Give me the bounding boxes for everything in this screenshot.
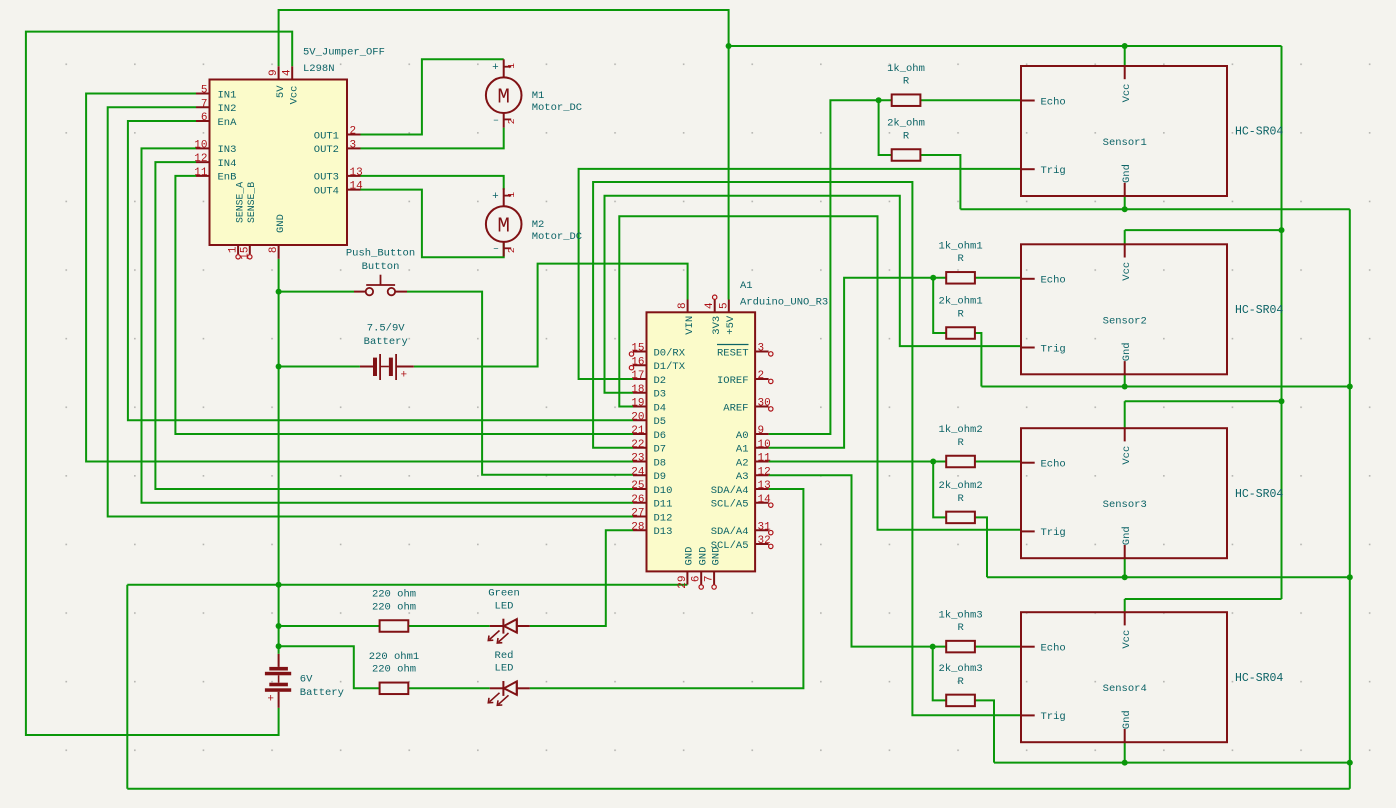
svg-text:6: 6 [691,576,703,583]
wire A0 to Sensor1 echo divider [769,100,892,434]
wire Sensor2 Vcc wire [1125,229,1282,231]
resistor R 1k_ohm3 (Sensor4) [939,609,983,652]
svg-text:5V_Jumper_OFF: 5V_Jumper_OFF [303,47,385,59]
svg-text:Red: Red [495,650,514,662]
svg-text:GND: GND [684,547,696,566]
svg-text:IN3: IN3 [218,144,237,156]
no-connect marker Arduino GND6 [699,585,703,589]
wire Sensor1 2k to GND wire [920,155,960,209]
svg-text:M2: M2 [532,219,545,231]
svg-text:D13: D13 [654,526,673,538]
wire Sensor2 1k to Echo [975,277,1021,279]
svg-text:4: 4 [282,69,294,76]
svg-text:IN4: IN4 [218,158,237,170]
wire Sensor3 Vcc wire [1125,400,1282,402]
svg-text:SENSE_B: SENSE_B [246,182,257,223]
svg-text:GND: GND [697,547,709,566]
svg-text:+: + [401,370,408,382]
svg-text:6: 6 [201,112,208,124]
svg-text:Trig: Trig [1041,527,1066,539]
svg-text:12: 12 [194,153,207,165]
wire Sensor2 Gnd drop [1124,374,1126,386]
svg-text:10: 10 [758,439,771,451]
svg-text:3: 3 [758,343,765,355]
wire IN2 to D12 [108,107,633,516]
svg-text:Trig: Trig [1041,165,1066,177]
svg-text:M1: M1 [532,90,545,102]
svg-text:Battery: Battery [364,336,408,348]
svg-text:RESET: RESET [717,347,749,359]
svg-text:D9: D9 [654,471,667,483]
svg-text:−: − [493,245,498,255]
svg-text:Green: Green [488,588,520,600]
wire EnB to D6 [175,176,633,434]
junction 5V at Arduino +5V drop [726,43,732,49]
junction Sensor3 Gnd [1122,574,1128,580]
junction Sensor2 Vcc bus [1279,227,1285,233]
svg-text:Button: Button [362,261,400,273]
svg-text:A1: A1 [740,280,753,292]
svg-text:10: 10 [194,139,207,151]
svg-text:D8: D8 [654,457,667,469]
svg-text:11: 11 [194,167,208,179]
wire Sensor4 Vcc drop [1124,599,1126,612]
no-connect marker Arduino SCL/A5 14 [769,503,773,507]
svg-text:13: 13 [758,480,771,492]
wire Sensor3 GND wire [987,576,1350,578]
svg-text:HC-SR04: HC-SR04 [1235,672,1283,685]
wire Sensor2 divider tap [933,278,946,333]
wire Sensor4 GND wire [994,762,1350,764]
wire A1 to Sensor2 echo divider [769,278,947,448]
svg-text:+: + [492,62,499,74]
svg-text:20: 20 [631,411,644,423]
wire EnA to D5 [128,121,633,420]
motor driver IC U1 L298N [194,66,363,259]
svg-text:D5: D5 [654,416,667,428]
junction GND chain s4 [1347,760,1353,766]
svg-text:Echo: Echo [1041,459,1066,471]
junction Sensor1 Gnd [1122,206,1128,212]
svg-text:2k_ohm: 2k_ohm [887,118,925,130]
junction Sensor4 Gnd [1122,760,1128,766]
svg-text:26: 26 [631,494,644,506]
no-connect marker Arduino pin32 [769,544,773,548]
svg-text:Vcc: Vcc [1121,262,1133,281]
svg-text:R: R [957,437,964,449]
svg-text:2: 2 [506,247,517,253]
wire Sensor3 1k to Echo [975,461,1021,463]
resistor R 220_ohm1 (red LED) [369,651,419,694]
svg-text:7: 7 [201,98,208,110]
svg-text:1k_ohm2: 1k_ohm2 [939,424,983,436]
svg-text:24: 24 [631,466,645,478]
wire 7.5/9V battery to VIN [414,264,688,367]
wire red LED to SDA/A4 [530,489,804,688]
svg-text:1: 1 [506,63,517,69]
svg-text:Vcc: Vcc [1121,84,1133,103]
svg-text:Echo: Echo [1041,96,1066,108]
wire Sensor1 divider tap [879,100,892,155]
LED D1 green [488,588,530,643]
svg-text:D6: D6 [654,430,667,442]
svg-text:220 ohm: 220 ohm [372,601,416,613]
junction Sensor2 Gnd [1122,384,1128,390]
svg-text:Gnd: Gnd [1121,526,1133,545]
svg-text:+: + [492,191,499,203]
wire Sensor3 2k to GND wire [975,517,987,577]
svg-text:27: 27 [631,508,644,520]
svg-text:GND: GND [275,214,287,233]
battery BT2 6V [265,654,344,708]
battery BT1 7.5/9V [360,323,414,382]
wire sensor GND chain vertical [1349,209,1351,788]
svg-text:29: 29 [677,576,689,589]
svg-text:Vcc: Vcc [288,86,300,105]
push button SW1 [346,248,415,296]
resistor R 2k_ohm3 (Sensor4) [939,663,983,706]
svg-text:5V: 5V [275,85,287,98]
svg-text:Motor_DC: Motor_DC [532,231,582,243]
svg-text:HC-SR04: HC-SR04 [1235,488,1283,501]
svg-text:5: 5 [201,85,208,97]
svg-text:8: 8 [268,247,280,254]
svg-text:12: 12 [758,466,771,478]
svg-text:220 ohm1: 220 ohm1 [369,651,419,663]
svg-text:HC-SR04: HC-SR04 [1235,126,1283,139]
svg-text:LED: LED [495,600,514,612]
svg-text:Motor_DC: Motor_DC [532,102,582,114]
resistor R 220_ohm (green LED) [372,589,416,632]
junction Sensor2 echo divider [930,275,936,281]
svg-text:A1: A1 [736,444,749,456]
svg-text:2k_ohm3: 2k_ohm3 [939,663,983,675]
no-connect marker L298N pin15 [248,255,252,259]
wire OUT3 to M2+ [361,176,504,190]
svg-text:7.5/9V: 7.5/9V [367,323,406,335]
resistor R 1k_ohm1 (Sensor2) [939,241,983,284]
svg-text:Trig: Trig [1041,711,1066,723]
wire A2 to Sensor3 echo divider [769,461,947,463]
svg-text:5: 5 [718,302,730,309]
wire Sensor4 divider tap [933,647,947,701]
svg-text:SCL/A5: SCL/A5 [711,499,749,511]
svg-text:15: 15 [239,246,251,259]
svg-text:D11: D11 [654,499,673,511]
junction Sensor4 echo divider [930,644,936,650]
svg-text:1k_ohm: 1k_ohm [887,63,925,75]
svg-text:VIN: VIN [684,316,696,335]
svg-text:23: 23 [631,453,644,465]
svg-text:1: 1 [506,192,517,198]
svg-text:Gnd: Gnd [1121,710,1133,729]
svg-text:+5V: +5V [725,315,737,335]
wire Sensor1 Vcc drop [1124,46,1126,66]
wire green LED row left [279,625,380,627]
svg-text:A2: A2 [736,457,749,469]
svg-text:2k_ohm2: 2k_ohm2 [939,480,983,492]
junction rail-green LED [276,623,282,629]
no-connect marker L298N pin1 [236,255,240,259]
svg-text:M: M [497,216,510,239]
svg-text:R: R [903,130,910,142]
svg-text:Vcc: Vcc [1121,446,1133,465]
junction Sensor1 echo divider [876,97,882,103]
svg-text:R: R [903,76,910,88]
motor M1 Motor_DC [486,59,582,127]
svg-text:HC-SR04: HC-SR04 [1235,304,1283,317]
svg-text:2: 2 [350,126,357,138]
wire 6V battery + return [26,32,292,735]
wire Sensor4 1k to Echo [975,646,1021,648]
ultrasonic sensor Sensor2 HC-SR04 [1021,244,1283,374]
wire GND bottom bus [127,788,1350,790]
svg-text:Sensor1: Sensor1 [1103,137,1147,149]
wire D7 to Sensor4 Trig [593,182,1021,715]
svg-text:21: 21 [631,425,645,437]
junction rail-gnd wire [276,582,282,588]
svg-text:−: − [493,116,498,126]
svg-text:28: 28 [631,521,644,533]
wire OUT1 to M1+ [361,59,504,134]
junction GND chain s2 [1347,384,1353,390]
resistor R 2k_ohm1 (Sensor2) [939,296,983,339]
svg-text:9: 9 [268,69,280,76]
svg-text:Echo: Echo [1041,643,1066,655]
junction rail-battery [276,364,282,370]
junction rail-button [276,289,282,295]
Arduino UNO R3 A1 [631,300,771,589]
motor M2 Motor_DC [486,188,582,256]
svg-text:220 ohm: 220 ohm [372,589,416,601]
svg-text:IN2: IN2 [218,103,237,115]
wire Sensor3 Gnd drop [1124,558,1126,577]
svg-text:2k_ohm1: 2k_ohm1 [939,296,983,308]
svg-text:OUT4: OUT4 [314,185,339,197]
svg-text:3V3: 3V3 [711,316,723,335]
svg-text:8: 8 [677,302,689,309]
resistor R 1k_ohm (Sensor1) [887,63,925,106]
wire A3 to Sensor4 echo divider [769,475,947,646]
svg-text:1: 1 [228,246,240,253]
svg-text:Sensor2: Sensor2 [1103,315,1147,327]
svg-text:D2: D2 [654,375,667,387]
svg-text:Sensor3: Sensor3 [1103,499,1147,511]
svg-text:LED: LED [495,663,514,675]
svg-text:GND: GND [710,547,722,566]
wire Sensor3 Vcc drop [1124,401,1126,428]
no-connect marker Arduino 3V3 [713,295,717,299]
wire GND wire to Arduino GND [127,584,687,586]
svg-text:22: 22 [631,439,644,451]
wire IN4 to D10 [155,162,633,489]
svg-text:Gnd: Gnd [1121,164,1133,183]
wire Sensor1 1k to Echo [920,99,1021,101]
junction Sensor3 echo divider [930,459,936,465]
svg-text:1k_ohm3: 1k_ohm3 [939,609,983,621]
wire red LED feed [279,646,380,688]
svg-text:EnA: EnA [218,117,238,129]
svg-text:Gnd: Gnd [1121,342,1133,361]
svg-text:SENSE_A: SENSE_A [234,182,245,223]
resistor R 1k_ohm2 (Sensor3) [939,424,983,467]
svg-text:D12: D12 [654,512,673,524]
svg-text:Sensor4: Sensor4 [1103,683,1147,695]
resistor R 2k_ohm2 (Sensor3) [939,480,983,523]
svg-text:7: 7 [704,576,716,583]
svg-text:Push_Button: Push_Button [346,248,415,260]
svg-text:IN1: IN1 [218,89,237,101]
LED D2 red [488,650,530,705]
wire 5V branch to sensor Vcc bus [729,45,1282,47]
wire Sensor4 Gnd drop [1124,742,1126,762]
svg-text:R: R [957,676,964,688]
svg-text:D10: D10 [654,485,673,497]
svg-text:+: + [267,694,274,706]
svg-text:Battery: Battery [300,687,344,699]
svg-text:3: 3 [350,139,357,151]
wire Sensor2 Vcc drop [1124,230,1126,244]
svg-text:SDA/A4: SDA/A4 [711,526,749,538]
wire IN3 to D11 [142,148,634,502]
junction Sensor3 Vcc bus [1279,398,1285,404]
svg-text:D7: D7 [654,444,667,456]
wire GND left drop to bottom bus [126,585,128,789]
wire Sensor2 GND wire [981,386,1349,388]
wire button to D9 [407,292,633,475]
svg-text:R: R [957,622,964,634]
svg-text:Trig: Trig [1041,343,1066,355]
svg-text:D1/TX: D1/TX [654,361,686,373]
svg-text:Echo: Echo [1041,275,1066,287]
no-connect marker Arduino IOREF [769,379,773,383]
svg-text:AREF: AREF [723,402,748,414]
svg-text:13: 13 [350,167,363,179]
wire green LED row mid [407,625,490,627]
svg-text:A0: A0 [736,430,749,442]
resistor R 2k_ohm (Sensor1) [887,118,925,161]
svg-text:1k_ohm1: 1k_ohm1 [939,241,983,253]
svg-text:18: 18 [631,384,644,396]
wire IN1 to D8 [86,94,633,462]
wire OUT4 to M2- [361,190,504,258]
svg-text:D0/RX: D0/RX [654,347,686,359]
svg-text:L298N: L298N [303,63,335,75]
junction GND chain s3 [1347,574,1353,580]
junction Sensor1 Vcc [1122,43,1128,49]
svg-text:OUT2: OUT2 [314,144,339,156]
svg-text:D3: D3 [654,389,667,401]
wire Sensor1 Gnd drop [1124,196,1126,209]
svg-text:220 ohm: 220 ohm [372,664,416,676]
svg-text:R: R [957,493,964,505]
no-connect marker Arduino GND7 [712,585,716,589]
no-connect marker Arduino pin16 D1 [629,366,633,370]
svg-text:19: 19 [631,398,644,410]
svg-text:Arduino_UNO_R3: Arduino_UNO_R3 [740,297,828,309]
svg-text:OUT1: OUT1 [314,130,339,142]
svg-text:M: M [497,87,510,110]
svg-text:17: 17 [631,370,644,382]
no-connect marker Arduino AREF [769,407,773,411]
wire green LED to D13 [530,530,633,626]
wire Sensor3 divider tap [933,462,946,518]
svg-text:A3: A3 [736,471,749,483]
wire Sensor2 2k to GND wire [975,333,981,387]
wire red LED row mid [407,687,490,689]
svg-text:25: 25 [631,480,644,492]
svg-text:D4: D4 [654,402,667,414]
svg-text:OUT3: OUT3 [314,172,339,184]
svg-text:R: R [957,308,964,320]
svg-text:R: R [957,253,964,265]
wire 5V from L298N pin9 to Arduino +5V [279,10,729,300]
svg-text:6V: 6V [300,674,313,686]
wire GND rail to 7.5/9V battery [279,366,360,368]
wire OUT2 to M1- [361,128,504,149]
no-connect marker Arduino pin31 [769,530,773,534]
wire Sensor4 Vcc wire [1125,598,1282,600]
svg-text:2: 2 [758,370,765,382]
wire GND rail to button [279,291,354,293]
svg-text:11: 11 [758,453,772,465]
svg-text:14: 14 [350,181,364,193]
svg-text:IOREF: IOREF [717,375,749,387]
wire D3 to Sensor2 Trig [605,196,1022,393]
no-connect marker Arduino RESET [769,352,773,356]
ultrasonic sensor Sensor1 HC-SR04 [1021,66,1283,196]
wire 5V right-side vertical bus [1281,46,1283,599]
ultrasonic sensor Sensor4 HC-SR04 [1021,612,1283,742]
wire Sensor1 GND wire [960,208,1349,210]
svg-text:2: 2 [506,118,517,124]
wire D2 to Sensor1 Trig [579,169,1021,379]
no-connect marker Arduino pin15 D0 [629,352,633,356]
svg-text:4: 4 [704,302,716,309]
wire Sensor4 2k to GND wire [975,700,994,762]
ultrasonic sensor Sensor3 HC-SR04 [1021,428,1283,558]
svg-text:SDA/A4: SDA/A4 [711,485,749,497]
junction rail-red LED [276,643,282,649]
svg-text:Vcc: Vcc [1121,630,1133,649]
svg-text:9: 9 [758,425,765,437]
wire GND rail from L298N pin8 [278,259,280,654]
wire D4 to Sensor3 Trig [619,216,1021,529]
